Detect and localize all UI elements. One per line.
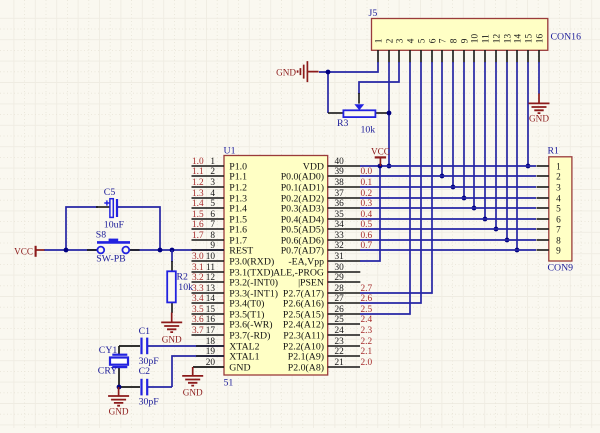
wire C5 branch bbox=[66, 207, 98, 250]
svg-text:GND: GND bbox=[229, 362, 250, 373]
svg-text:2: 2 bbox=[385, 38, 395, 43]
pin stub R1-2 bbox=[537, 175, 549, 177]
svg-text:REST: REST bbox=[229, 245, 253, 256]
svg-text:GND: GND bbox=[183, 387, 203, 397]
pin stub U1-3 bbox=[192, 186, 225, 188]
wire J5 pin 10 to P0.3 row bbox=[473, 62, 475, 208]
svg-text:8: 8 bbox=[449, 38, 459, 43]
svg-text:10: 10 bbox=[470, 34, 480, 44]
wire R2 to REST row bbox=[171, 250, 173, 262]
svg-text:XTAL1: XTAL1 bbox=[229, 351, 259, 362]
svg-text:P1.4: P1.4 bbox=[229, 203, 247, 214]
svg-text:P3.4(T0): P3.4(T0) bbox=[229, 298, 264, 309]
svg-text:1: 1 bbox=[556, 162, 561, 172]
pin stub U1-11 bbox=[192, 271, 225, 273]
svg-text:9: 9 bbox=[460, 38, 470, 43]
svg-text:VCC: VCC bbox=[14, 246, 33, 256]
svg-text:3: 3 bbox=[556, 183, 561, 193]
svg-text:3.7: 3.7 bbox=[192, 326, 204, 336]
svg-text:6: 6 bbox=[428, 38, 438, 43]
wire J5 pin 5 to P2.6 row bbox=[360, 62, 421, 303]
wire GND net to J5 pin 1 bbox=[319, 62, 378, 72]
pin stub J5-15 bbox=[527, 50, 529, 63]
pin stub U1-34 bbox=[328, 228, 360, 230]
svg-text:2.3: 2.3 bbox=[361, 326, 373, 336]
svg-text:2.4: 2.4 bbox=[361, 315, 373, 325]
pin stub U1-39 bbox=[328, 175, 360, 177]
junction p13/row 33 bbox=[505, 238, 510, 243]
svg-text:2.1: 2.1 bbox=[361, 347, 373, 357]
pin stub U1-36 bbox=[328, 207, 360, 209]
pin stub R1-7 bbox=[537, 228, 549, 230]
svg-text:VCC: VCC bbox=[371, 147, 390, 157]
potentiometer R3 bbox=[343, 104, 375, 117]
svg-text:P3.6(-WR): P3.6(-WR) bbox=[229, 319, 272, 330]
crystal CY1 bbox=[110, 355, 128, 367]
capacitor C2 bbox=[142, 379, 148, 396]
svg-text:3.2: 3.2 bbox=[192, 273, 204, 283]
pin stub J5-11 bbox=[484, 50, 486, 63]
svg-text:8: 8 bbox=[556, 236, 561, 246]
wire row pin40 to R1 pin 1 bbox=[360, 165, 536, 167]
svg-text:10k: 10k bbox=[361, 125, 376, 136]
pin stub R1-5 bbox=[537, 207, 549, 209]
pin stub J5-8 bbox=[452, 50, 454, 63]
svg-text:P2.3(A11): P2.3(A11) bbox=[283, 330, 324, 341]
svg-text:4: 4 bbox=[406, 38, 416, 43]
power port VCC top bbox=[371, 147, 390, 166]
junction R2 top bbox=[170, 248, 175, 253]
connector R1 bbox=[549, 157, 572, 261]
pin stub J5-3 bbox=[398, 50, 400, 63]
svg-text:6: 6 bbox=[556, 215, 561, 225]
pin stub J5-10 bbox=[473, 50, 475, 63]
pin stub J5-9 bbox=[463, 50, 465, 63]
svg-text:P0.5(AD5): P0.5(AD5) bbox=[281, 224, 324, 235]
pin stub U1-1 bbox=[192, 165, 225, 167]
svg-text:CON16: CON16 bbox=[551, 32, 582, 43]
svg-text:GND: GND bbox=[162, 335, 182, 345]
svg-text:3.5: 3.5 bbox=[192, 305, 204, 315]
pin stub U1-25 bbox=[328, 323, 360, 325]
pin stub U1-29 bbox=[328, 281, 361, 283]
connector J5 bbox=[372, 19, 548, 51]
wire J5 pin 6 to P2.7 row bbox=[360, 62, 432, 293]
pin stub U1-24 bbox=[328, 334, 360, 336]
junction R3/p2 bbox=[387, 111, 392, 116]
pin stub U1-9 over wire bbox=[192, 249, 225, 251]
svg-text:SW-PB: SW-PB bbox=[96, 254, 126, 265]
wire J5 pin 13 to P0.6 row bbox=[506, 62, 508, 240]
pin stub J5-7 bbox=[441, 50, 443, 63]
wire switch to REST pin bbox=[130, 249, 224, 251]
svg-text:P2.4(A12): P2.4(A12) bbox=[283, 319, 324, 330]
pin stub J5-5 bbox=[420, 50, 422, 63]
pin stub U1-22 bbox=[328, 355, 360, 357]
pin stub U1-12 bbox=[192, 281, 225, 283]
junction p12/row 34 bbox=[494, 227, 499, 232]
svg-text:5: 5 bbox=[417, 38, 427, 43]
svg-text:3.1: 3.1 bbox=[192, 263, 204, 273]
pin stub U1-19 over wire bbox=[196, 355, 224, 357]
svg-text:2.0: 2.0 bbox=[361, 358, 373, 368]
svg-text:11: 11 bbox=[481, 34, 491, 43]
pin stub J5-4 bbox=[409, 50, 411, 63]
svg-text:1.1: 1.1 bbox=[192, 167, 204, 177]
svg-text:-EA,Vpp: -EA,Vpp bbox=[288, 256, 324, 267]
wire J5 pin 15 to VCC row bbox=[527, 62, 529, 166]
svg-text:P1.6: P1.6 bbox=[229, 224, 247, 235]
pin stub R1-6 bbox=[537, 218, 549, 220]
pin stub J5-6 bbox=[431, 50, 433, 63]
pin stub U1-31 bbox=[328, 260, 361, 262]
svg-text:R2: R2 bbox=[177, 271, 189, 282]
junction crystal/C2/GND bbox=[117, 385, 122, 390]
svg-text:R1: R1 bbox=[548, 146, 560, 157]
svg-text:4: 4 bbox=[556, 194, 561, 204]
svg-text:3.3: 3.3 bbox=[192, 284, 204, 294]
wire XTAL1 jog to C2 bbox=[172, 356, 224, 387]
pin stub U1-37 bbox=[328, 197, 360, 199]
wire crystal top to C1 to XTAL2 bbox=[118, 346, 120, 355]
junction p14/row 32 bbox=[515, 248, 520, 253]
svg-text:P3.7(-RD): P3.7(-RD) bbox=[229, 330, 270, 341]
pin stub R1-4 bbox=[537, 197, 549, 199]
wire J5 pin 3 to R3 wiper bbox=[359, 62, 399, 94]
pin stub R1-1 bbox=[537, 165, 549, 167]
svg-text:P2.1(A9): P2.1(A9) bbox=[288, 351, 324, 362]
pin stub U1-21 bbox=[328, 366, 360, 368]
pin stub U1-4 bbox=[192, 197, 225, 199]
resistor R2 bbox=[167, 271, 176, 302]
pin stub U1-23 bbox=[328, 345, 360, 347]
pin stub U1-8 bbox=[192, 239, 225, 241]
junction C5 right bbox=[158, 248, 163, 253]
pin stub J5-1 bbox=[377, 50, 379, 63]
wire J5 pin 14 to P0.7 row bbox=[516, 62, 518, 250]
svg-text:P1.2: P1.2 bbox=[229, 182, 247, 193]
pin stub U1-7 bbox=[192, 228, 225, 230]
pin stub U1-14 bbox=[192, 302, 225, 304]
svg-text:1.7: 1.7 bbox=[192, 231, 204, 241]
svg-text:7: 7 bbox=[556, 225, 561, 235]
op-amp/IC U1 body bbox=[224, 156, 328, 376]
svg-text:P1.1: P1.1 bbox=[229, 171, 247, 182]
svg-text:30pF: 30pF bbox=[139, 397, 160, 408]
junction GND/R3 bbox=[326, 70, 331, 75]
svg-text:P2.0(A8): P2.0(A8) bbox=[288, 362, 324, 373]
junction p9/row 37 bbox=[462, 196, 467, 201]
pin stub U1-26 bbox=[328, 313, 360, 315]
svg-text:S8: S8 bbox=[96, 230, 106, 241]
wire row pin38 to R1 pin 3 bbox=[360, 186, 536, 188]
svg-text:1.5: 1.5 bbox=[192, 210, 204, 220]
svg-text:J5: J5 bbox=[369, 8, 378, 19]
pin stub U1-16 bbox=[192, 323, 225, 325]
svg-text:9: 9 bbox=[556, 246, 561, 256]
capacitor C5 (polarized) bbox=[104, 199, 117, 218]
pin stub U1-33 bbox=[328, 239, 360, 241]
svg-text:7: 7 bbox=[438, 38, 448, 43]
svg-text:P0.7(AD7): P0.7(AD7) bbox=[281, 245, 324, 256]
ground symbol J5 pin16 bbox=[529, 94, 550, 124]
svg-text:3.4: 3.4 bbox=[192, 294, 204, 304]
svg-text:14: 14 bbox=[513, 34, 523, 44]
svg-text:C5: C5 bbox=[104, 187, 116, 198]
svg-text:12: 12 bbox=[492, 34, 502, 44]
svg-text:10k: 10k bbox=[178, 282, 193, 293]
pin stub U1-40 bbox=[328, 165, 360, 167]
capacitor C1 bbox=[142, 338, 148, 355]
svg-text:13: 13 bbox=[503, 34, 513, 44]
junction p11/row 35 bbox=[483, 217, 488, 222]
svg-text:CRY: CRY bbox=[98, 365, 118, 376]
svg-text:2.2: 2.2 bbox=[361, 337, 373, 347]
svg-text:P3.0(RXD): P3.0(RXD) bbox=[229, 256, 274, 267]
wire row pin32 to R1 pin 9 bbox=[360, 249, 536, 251]
junction p8/row 38 bbox=[451, 185, 456, 190]
svg-text:R3: R3 bbox=[337, 118, 349, 129]
pin stub U1-28 bbox=[328, 292, 360, 294]
wire GND branch to R3 left bbox=[327, 72, 329, 113]
svg-text:5: 5 bbox=[556, 204, 561, 214]
wire J5 pin 11 to P0.4 row bbox=[484, 62, 486, 219]
svg-text:15: 15 bbox=[524, 34, 534, 44]
junction p10/row 36 bbox=[472, 206, 477, 211]
wire row pin34 to R1 pin 7 bbox=[360, 228, 536, 230]
junction p2/VDD row bbox=[387, 164, 392, 169]
pin stub U1-18 over wire bbox=[196, 345, 224, 347]
ground symbol U1 pin20 bbox=[182, 367, 203, 397]
svg-text:1.3: 1.3 bbox=[192, 189, 204, 199]
svg-text:3.0: 3.0 bbox=[192, 252, 204, 262]
wire row pin36 to R1 pin 5 bbox=[360, 207, 536, 209]
svg-text:1.4: 1.4 bbox=[192, 199, 204, 209]
svg-text:P2.6(A16): P2.6(A16) bbox=[283, 298, 324, 309]
wire R2 bottom to GND bbox=[171, 302, 173, 313]
pin stub U1-10 bbox=[192, 260, 225, 262]
svg-text:1.0: 1.0 bbox=[192, 157, 204, 167]
pin stub R1-9 bbox=[537, 249, 549, 251]
pin stub U1-27 bbox=[328, 302, 360, 304]
wire row pin35 to R1 pin 6 bbox=[360, 218, 536, 220]
wire J5 pin 9 to P0.2 row bbox=[463, 62, 465, 198]
pin stub R1-3 bbox=[537, 186, 549, 188]
svg-text:51: 51 bbox=[224, 378, 234, 389]
wire GND pin20 stub bbox=[193, 366, 224, 368]
pin stub U1-5 bbox=[192, 207, 225, 209]
svg-text:16: 16 bbox=[535, 34, 545, 44]
pin stub J5-14 bbox=[516, 50, 518, 63]
wire -EA,Vpp to VCC bbox=[360, 166, 380, 261]
svg-text:10uF: 10uF bbox=[104, 220, 125, 231]
svg-text:P3.2(-INT0): P3.2(-INT0) bbox=[229, 277, 278, 288]
svg-text:P0.0(AD0): P0.0(AD0) bbox=[281, 171, 324, 182]
junction VCC/VDD row bbox=[378, 164, 383, 169]
wire crystal bottom bbox=[119, 367, 140, 387]
wire VCC to switch S8 bbox=[44, 249, 97, 251]
pin stub U1-15 bbox=[192, 313, 225, 315]
svg-text:1.6: 1.6 bbox=[192, 220, 204, 230]
svg-text:P0.1(AD1): P0.1(AD1) bbox=[281, 182, 324, 193]
svg-text:CY1: CY1 bbox=[99, 345, 118, 356]
ground symbol top-left (J5 pin1) bbox=[276, 61, 319, 82]
power port VCC left bbox=[14, 246, 44, 257]
pin stub J5-16 bbox=[538, 50, 540, 63]
pin stub U1-38 bbox=[328, 186, 360, 188]
junction p15/VDD row bbox=[526, 164, 531, 169]
svg-text:1.2: 1.2 bbox=[192, 178, 204, 188]
wire J5 pin 12 to P0.5 row bbox=[495, 62, 497, 229]
wire J5 pin 7 to P0.0 row bbox=[441, 62, 443, 176]
junction C5 left bbox=[64, 248, 69, 253]
pin stub U1-17 bbox=[192, 334, 225, 336]
pin stub J5-12 bbox=[495, 50, 497, 63]
svg-text:U1: U1 bbox=[224, 145, 236, 156]
svg-text:C1: C1 bbox=[139, 326, 151, 337]
svg-text:P0.3(AD3): P0.3(AD3) bbox=[281, 203, 324, 214]
pin stub U1-2 bbox=[192, 175, 225, 177]
svg-text:2: 2 bbox=[556, 172, 561, 182]
ground symbol R2 bbox=[161, 313, 182, 345]
svg-text:3: 3 bbox=[395, 38, 405, 43]
ground symbol crystal bbox=[108, 387, 129, 417]
switch S8 SW-PB bbox=[97, 239, 130, 254]
svg-text:GND: GND bbox=[276, 67, 296, 77]
pin stub R1-8 bbox=[537, 239, 549, 241]
pin stub J5-13 bbox=[506, 50, 508, 63]
wire row pin37 to R1 pin 4 bbox=[360, 197, 536, 199]
pin stub U1-30 bbox=[328, 271, 361, 273]
svg-text:1: 1 bbox=[374, 38, 384, 43]
pin stub U1-32 bbox=[328, 249, 360, 251]
wire J5 pin 16 to GND bbox=[538, 62, 540, 94]
svg-text:GND: GND bbox=[109, 407, 129, 417]
svg-text:3.6: 3.6 bbox=[192, 315, 204, 325]
pin stub U1-13 bbox=[192, 292, 225, 294]
svg-text:C2: C2 bbox=[139, 366, 151, 377]
svg-text:CON9: CON9 bbox=[548, 263, 574, 274]
wire row pin39 to R1 pin 2 bbox=[360, 175, 536, 177]
wire J5 pin 8 to P0.1 row bbox=[452, 62, 454, 187]
svg-text:GND: GND bbox=[529, 113, 549, 123]
pin stub U1-35 bbox=[328, 218, 360, 220]
wire row pin33 to R1 pin 8 bbox=[360, 239, 536, 241]
wire J5 pin 4 to P2.5 row bbox=[360, 62, 410, 314]
pin stub J5-2 bbox=[388, 50, 390, 63]
svg-text:|PSEN: |PSEN bbox=[298, 277, 324, 288]
junction p7/row 39 bbox=[440, 174, 445, 179]
wire R3 right to J5 pin 2 and VCC row bbox=[375, 112, 389, 114]
pin stub U1-6 bbox=[192, 218, 225, 220]
